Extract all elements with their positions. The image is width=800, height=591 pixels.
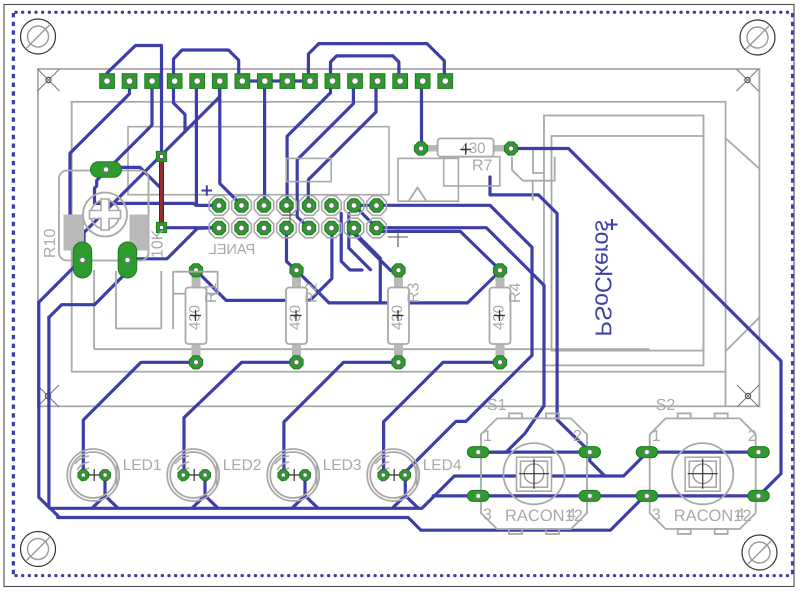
wire panel 13 loop to LED4 (354, 205, 532, 475)
wire LED3 drop (292, 475, 305, 508)
svg-text:3: 3 (652, 507, 661, 524)
wire gap stub b (349, 214, 371, 270)
wire bottom row S pads (433, 494, 759, 497)
connector PANEL pin 5 (257, 199, 270, 212)
connector pad 3 (145, 74, 160, 89)
svg-text:RACON12: RACON12 (674, 507, 752, 525)
wire R2 top join (297, 270, 330, 303)
wire arc pad10-pad16 (308, 44, 444, 80)
svg-text:S2: S2 (656, 397, 676, 414)
silkscreen socket corner chamfer top-right (726, 138, 759, 168)
jumper pad top (156, 151, 166, 161)
resistor R1 pad 2 (189, 356, 202, 369)
svg-text:3: 3 (483, 507, 492, 524)
switch S1 pad 2 (579, 447, 601, 458)
wire LED3 drop b (305, 496, 318, 508)
switch S1 pad 3 (467, 490, 489, 501)
svg-text:R3: R3 (406, 282, 423, 303)
silk box upper right (398, 158, 458, 201)
silkscreen board rectangle (38, 69, 759, 406)
resistor R3 body (388, 276, 409, 357)
wire pad11 to panel 7 (287, 80, 330, 205)
LED LED3 body (267, 449, 319, 501)
resistor R2 body (286, 276, 307, 357)
mounting hole top-left (21, 19, 56, 54)
connector PANEL pin 15 (370, 199, 383, 212)
connector PANEL pin 2 (212, 221, 225, 234)
svg-text:PANEL: PANEL (209, 242, 255, 258)
wire panel 15 loop to S1 pin1 (377, 228, 544, 452)
silk box at R1 top (173, 272, 218, 329)
wire gap stub a (341, 214, 362, 271)
wire LED1 drop b (105, 496, 118, 508)
wire arc pad11-pad14 (331, 56, 399, 80)
switch S2 pad 3 (636, 490, 658, 501)
switch S2 pad 2 (748, 447, 770, 458)
wire R10 wiper to jumper (118, 167, 162, 221)
svg-text:R7: R7 (472, 158, 493, 175)
wire panel 14 to R3 top (354, 228, 399, 271)
wire panel 16 to R4 top (377, 228, 501, 271)
connector PANEL pin 10 (302, 221, 315, 234)
wire panel 8 to R2 top (287, 228, 297, 270)
wire bus pads7-10 (240, 79, 308, 82)
resistor R3 pad 1 (392, 264, 405, 277)
svg-text:R2: R2 (304, 282, 321, 303)
wire pad2 to R10 left (70, 80, 130, 248)
connector PANEL pin 4 (235, 221, 248, 234)
svg-text:LED4: LED4 (423, 457, 462, 474)
connector pad 15 (415, 74, 430, 89)
connector pad 2 (122, 74, 137, 89)
potentiometer R10 body (59, 171, 149, 261)
mounting hole bottom-left (21, 532, 56, 567)
connector PANEL pin 13 (347, 199, 360, 212)
svg-text:1: 1 (483, 428, 492, 445)
origin cross right (388, 227, 408, 247)
wire R3 bottom to LED3 (284, 362, 399, 475)
LED LED3 pad cathode (300, 470, 311, 481)
LED LED1 pad anode (78, 470, 89, 481)
connector pad 16 (438, 74, 453, 89)
resistor R7 pad 1 (414, 142, 427, 155)
wire pad15 to R7 (420, 80, 423, 149)
svg-text:PSoCkeros: PSoCkeros (591, 220, 617, 336)
wire pad8 to panel 5 (263, 80, 266, 205)
wire pad3 to panel 1 (95, 80, 197, 205)
wire R7 to S2 pin4 (511, 149, 781, 496)
wire R2 bottom to LED2 (184, 362, 297, 475)
psoc plus marker (607, 219, 618, 230)
potentiometer R10 tab right (130, 215, 149, 251)
resistor R2 pad 1 (290, 264, 303, 277)
connector pad 12 (348, 74, 363, 89)
connector PANEL pin 1 (212, 199, 225, 212)
silkscreen socket corner chamfer bottom-right (726, 317, 760, 351)
LED LED4 pad cathode (400, 470, 411, 481)
silkscreen panel box (128, 127, 389, 195)
LED LED4 pad anode (378, 470, 389, 481)
resistor R7 pad 2 (504, 142, 517, 155)
potentiometer R10 tab left (64, 215, 85, 251)
fiducial X top-right (737, 69, 759, 91)
wire pad6 to R10 left (84, 80, 220, 248)
silkscreen socket inner outline (552, 136, 704, 351)
wire loop to S1 pin2 (490, 177, 590, 452)
switch S1 outline (481, 413, 587, 534)
LED LED2 pad cathode (200, 470, 211, 481)
wire bus1 riser (39, 302, 50, 508)
wire pad4 join (174, 80, 186, 132)
jumper wire (top layer) (159, 158, 164, 226)
wire S1 pin1-pin2 (478, 451, 590, 454)
fiducial X bottom-left (37, 385, 59, 407)
connector pad 4 (167, 74, 182, 89)
wire LED1 drop (92, 475, 105, 508)
LED LED1 pad cathode (100, 470, 111, 481)
connector pad 1 (100, 74, 115, 89)
LED LED2 pad anode (178, 470, 189, 481)
svg-text:1: 1 (652, 428, 661, 445)
silkscreen socket notch (533, 149, 544, 173)
connector pad 9 (280, 74, 295, 89)
resistor R3 pad 2 (392, 356, 405, 369)
wire pad6 to panel 3 (220, 80, 242, 205)
fiducial X bottom-right (737, 385, 759, 407)
potentiometer R10 pad right (118, 242, 137, 278)
switch S2 pad 4 (748, 490, 770, 501)
switch S2 pad 1 (636, 447, 658, 458)
LED LED1 cross (84, 469, 104, 481)
connector pad 11 (325, 74, 340, 89)
switch S2 outline (650, 413, 756, 534)
silkscreen line x94 (93, 270, 95, 349)
LED LED3 cross (284, 469, 304, 481)
LED LED4 body (367, 449, 419, 501)
wire pad1 to jumper top (107, 46, 162, 152)
wire bus2 (58, 496, 645, 530)
connector PANEL pin 9 (302, 199, 315, 212)
switch S1 pad 4 (579, 490, 601, 501)
wire bus2 riser (49, 317, 60, 517)
wire pad13 to panel 9 (308, 80, 376, 205)
wire rise to panel 14 (354, 228, 380, 303)
resistor R4 pad 1 (493, 264, 506, 277)
connector pad 14 (393, 74, 408, 89)
connector PANEL pin 7 (280, 199, 293, 212)
resistor R4 pad 2 (493, 356, 506, 369)
svg-text:RACON12: RACON12 (505, 507, 583, 525)
switch S1 plunger (517, 457, 552, 491)
connector PANEL pin 6 (257, 221, 270, 234)
wire R1 bottom to LED1 (83, 362, 196, 475)
resistor R1 body (186, 276, 207, 357)
wire arc pad4-pad7 (174, 50, 239, 80)
LED LED2 body (167, 449, 219, 501)
wire R4 bottom to LED4 (384, 362, 500, 475)
connector PANEL outline (209, 196, 386, 238)
connector pad 8 (258, 74, 273, 89)
panel pin1 marker (197, 185, 213, 197)
switch S1 pad 1 (467, 447, 489, 458)
potentiometer R10 pad top (91, 162, 122, 178)
silk box under R7 (444, 157, 500, 186)
silk plug right of R7 (512, 157, 555, 181)
jumper pad bottom (156, 222, 166, 232)
silk box upper mid (286, 158, 331, 181)
wire R4 top join (468, 271, 501, 303)
silkscreen inner rectangle (72, 102, 726, 372)
LED LED3 pad anode (278, 470, 289, 481)
wire R10 left to bus1 riser (39, 260, 81, 302)
mounting hole bottom-right (742, 535, 777, 570)
connector PANEL pin 16 (370, 221, 383, 234)
wire bus1 (50, 453, 647, 509)
svg-text:LED1: LED1 (123, 457, 162, 474)
resistor R1 pad 1 (189, 264, 202, 277)
svg-text:2: 2 (573, 428, 582, 445)
wire R10 right to bus2 riser (49, 272, 127, 317)
wire LED4 drop (393, 475, 406, 508)
svg-text:10K: 10K (150, 229, 167, 258)
wire bus1 branch to S1 pin2 (590, 452, 605, 476)
LED LED4 cross (384, 469, 404, 481)
resistor R2 pad 2 (290, 356, 303, 369)
resistor R7 body (428, 138, 505, 156)
wire LED4 drop b (405, 496, 418, 508)
connector PANEL pin 14 (347, 221, 360, 234)
mounting hole top-right (740, 20, 775, 55)
wire LED2 drop b (205, 496, 218, 508)
origin cross panel (283, 208, 298, 223)
switch S2 plunger (685, 457, 720, 491)
connector PANEL pin 8 (280, 221, 293, 234)
fiducial X top-left (38, 69, 60, 91)
svg-text:R10: R10 (42, 229, 59, 258)
potentiometer R10 rotor (83, 193, 127, 237)
potentiometer R10 pad left (73, 242, 92, 278)
connector pad 6 (212, 74, 227, 89)
resistor R4 body (490, 276, 511, 357)
silkscreen socket outline (544, 116, 704, 366)
wire R10 right to panel 2 (127, 228, 219, 259)
svg-text:2: 2 (748, 428, 757, 445)
connector pad 7 (235, 74, 250, 89)
connector pad 13 (370, 74, 385, 89)
wire S2 pin1-pin2 (647, 451, 759, 454)
svg-text:430: 430 (461, 140, 486, 157)
connector PANEL pin 12 (325, 221, 338, 234)
LED LED1 body (67, 449, 119, 501)
connector PANEL pin 3 (235, 199, 248, 212)
wire pad5 to panel 1 (196, 80, 219, 205)
wire panel 13 to panel 16 (354, 205, 376, 227)
LED LED2 cross (184, 469, 204, 481)
silk box below R10 (116, 271, 161, 329)
connector pad 5 (190, 74, 205, 89)
wire LED2 drop (192, 475, 205, 508)
svg-text:R4: R4 (507, 282, 524, 303)
connector PANEL pin 11 (325, 199, 338, 212)
wire R1 top to panel 12 (196, 228, 332, 300)
svg-text:S1: S1 (487, 397, 507, 414)
wire jumper bottom to panel 2 (162, 226, 220, 229)
wire pad12 to panel 10 (297, 80, 353, 228)
svg-text:LED3: LED3 (323, 457, 362, 474)
svg-text:LED2: LED2 (223, 457, 262, 474)
wire mid bus (329, 301, 468, 304)
connector pad 10 (303, 74, 318, 89)
